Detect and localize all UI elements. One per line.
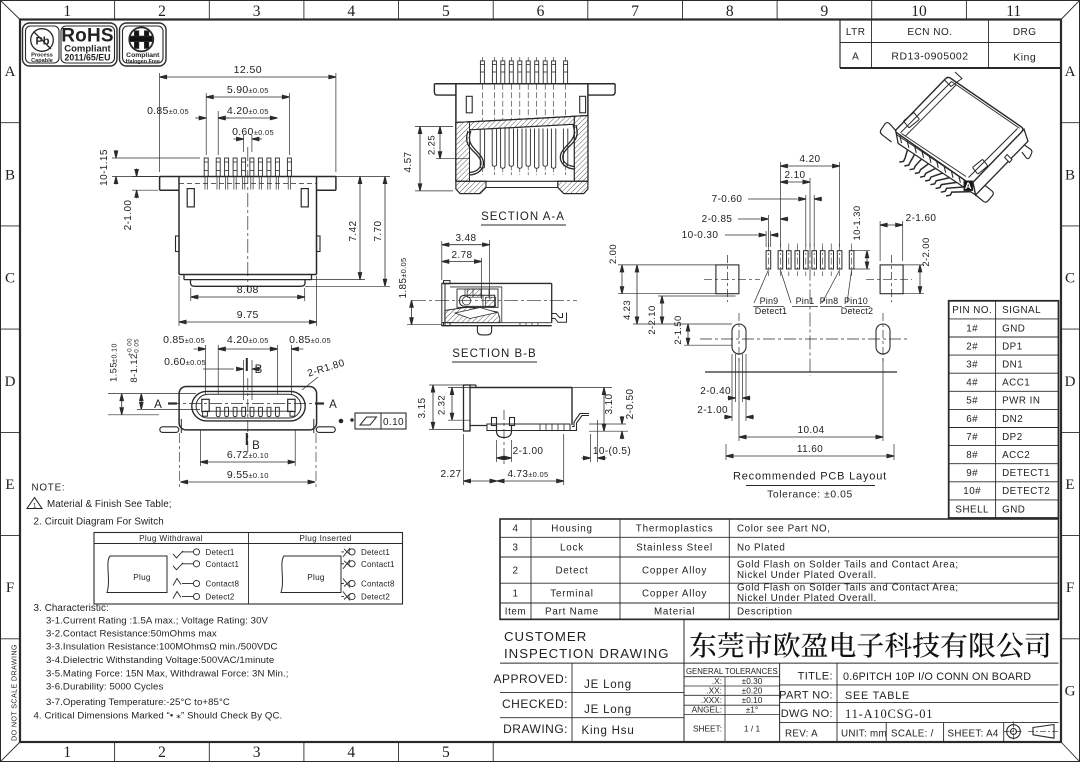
- svg-text:0.10: 0.10: [383, 417, 404, 428]
- svg-text:9#: 9#: [966, 468, 978, 479]
- svg-text:2-2.10: 2-2.10: [647, 305, 658, 334]
- svg-text:Pin10: Pin10: [844, 296, 868, 306]
- svg-text:Detect2: Detect2: [841, 306, 873, 316]
- svg-text:Contact1: Contact1: [361, 560, 395, 569]
- svg-text:Stainless Steel: Stainless Steel: [636, 543, 713, 554]
- svg-text:Gold Flash on Solder Tails and: Gold Flash on Solder Tails and Contact A…: [737, 583, 959, 594]
- svg-text:1.55: 1.55: [109, 362, 120, 382]
- svg-text:Lock: Lock: [560, 543, 584, 554]
- svg-text:±0.10: ±0.10: [112, 343, 119, 362]
- svg-text:A: A: [329, 399, 337, 411]
- svg-text:DN2: DN2: [1002, 414, 1023, 425]
- svg-text:LTR: LTR: [846, 27, 866, 38]
- svg-text:4.73±0.05: 4.73±0.05: [508, 469, 549, 480]
- svg-text:4. Critical Dimensions Marked: 4. Critical Dimensions Marked “• ⁎” Shou…: [34, 711, 283, 722]
- svg-text:0.85±0.05: 0.85±0.05: [289, 334, 331, 346]
- svg-text:9: 9: [821, 3, 829, 20]
- svg-text:Item: Item: [505, 607, 526, 618]
- svg-text:10: 10: [911, 3, 927, 20]
- svg-text:10#: 10#: [963, 486, 981, 497]
- svg-text:-0.05: -0.05: [134, 339, 141, 355]
- svg-text:Copper Alloy: Copper Alloy: [642, 589, 707, 600]
- svg-text:9.75: 9.75: [237, 309, 259, 321]
- svg-text:3-7.Operating Temperature:-25°: 3-7.Operating Temperature:-25°C to+85°C: [46, 697, 230, 708]
- svg-text:10.04: 10.04: [797, 425, 824, 436]
- svg-text:1 / 1: 1 / 1: [744, 724, 761, 734]
- svg-text:Copper Alloy: Copper Alloy: [642, 566, 707, 577]
- svg-text:ECN NO.: ECN NO.: [907, 27, 952, 38]
- svg-text:DETECT1: DETECT1: [1002, 468, 1050, 479]
- svg-text:3. Characteristic:: 3. Characteristic:: [34, 603, 109, 614]
- svg-text:1.85±0.05: 1.85±0.05: [398, 258, 409, 299]
- svg-text:ACC2: ACC2: [1002, 450, 1030, 461]
- svg-text:GENERAL TOLERANCES: GENERAL TOLERANCES: [686, 667, 778, 676]
- svg-text:A: A: [852, 52, 859, 63]
- svg-text:Plug: Plug: [133, 573, 151, 582]
- svg-text:A: A: [1065, 64, 1076, 80]
- svg-text:SHELL: SHELL: [955, 504, 989, 515]
- svg-text:1: 1: [63, 3, 71, 20]
- svg-text:DRG: DRG: [1013, 27, 1037, 38]
- svg-text:11: 11: [1006, 3, 1021, 20]
- svg-text:Plug: Plug: [307, 573, 325, 582]
- svg-text:2.32: 2.32: [437, 395, 448, 415]
- svg-text:8: 8: [726, 3, 734, 20]
- svg-text:3-6.Durability: 5000 Cycles: 3-6.Durability: 5000 Cycles: [46, 682, 163, 693]
- svg-text:CUSTOMER: CUSTOMER: [504, 629, 587, 644]
- svg-text:10-0.30: 10-0.30: [682, 230, 719, 241]
- svg-text:2-0.50: 2-0.50: [625, 389, 636, 420]
- svg-text:1#: 1#: [966, 323, 978, 334]
- svg-text:Contact1: Contact1: [206, 560, 240, 569]
- svg-text:Pin1: Pin1: [796, 296, 815, 306]
- svg-text:SEE TABLE: SEE TABLE: [845, 690, 910, 702]
- svg-text:B: B: [5, 167, 15, 183]
- svg-text:4.57: 4.57: [403, 151, 414, 172]
- svg-text:DO NOT SCALE DRAWING: DO NOT SCALE DRAWING: [10, 644, 19, 741]
- svg-text:3-4.Dielectric Withstanding Vo: 3-4.Dielectric Withstanding Voltage:500V…: [46, 655, 274, 666]
- svg-text:3-3.Insulation Resistance:100M: 3-3.Insulation Resistance:100MOhmsΩ min.…: [46, 642, 278, 653]
- svg-text:2: 2: [158, 744, 166, 761]
- svg-text:Nickel Under Plated Overall.: Nickel Under Plated Overall.: [737, 570, 877, 581]
- svg-text:ANGEL:: ANGEL:: [692, 705, 722, 715]
- svg-text:12.50: 12.50: [234, 64, 262, 76]
- svg-text:GND: GND: [1002, 504, 1025, 515]
- svg-text:2011/65/EU: 2011/65/EU: [65, 53, 111, 63]
- svg-text:C: C: [5, 271, 15, 287]
- svg-text:ACC1: ACC1: [1002, 378, 1030, 389]
- svg-text:INSPECTION DRAWING: INSPECTION DRAWING: [504, 646, 670, 661]
- svg-text:C: C: [1065, 271, 1075, 287]
- svg-text:4.23: 4.23: [622, 300, 633, 320]
- svg-text:SIGNAL: SIGNAL: [1002, 305, 1041, 316]
- svg-text:F: F: [6, 580, 14, 596]
- svg-text:3: 3: [512, 543, 518, 554]
- svg-text:Housing: Housing: [551, 524, 593, 535]
- svg-text:Material: Material: [654, 607, 695, 618]
- svg-text:CHECKED:: CHECKED:: [502, 697, 568, 711]
- svg-text:+0.00: +0.00: [127, 338, 134, 356]
- svg-text:2-1.00: 2-1.00: [513, 446, 544, 457]
- svg-text:2-1.60: 2-1.60: [906, 213, 937, 224]
- svg-text:Compliant: Compliant: [126, 52, 160, 59]
- svg-text:±1°: ±1°: [746, 705, 759, 715]
- svg-text:JE Long: JE Long: [584, 679, 632, 691]
- svg-text:Plug Inserted: Plug Inserted: [299, 534, 351, 543]
- svg-text:F: F: [1066, 580, 1074, 596]
- svg-text:.XXX:: .XXX:: [701, 695, 722, 705]
- svg-text:PIN NO.: PIN NO.: [952, 305, 992, 316]
- svg-text:DN1: DN1: [1002, 360, 1023, 371]
- svg-text:Terminal: Terminal: [550, 589, 593, 600]
- svg-text:Halogen Free: Halogen Free: [126, 59, 160, 65]
- svg-text:Thermoplastics: Thermoplastics: [636, 524, 714, 535]
- svg-text:3: 3: [253, 3, 261, 20]
- svg-text:0.6PITCH 10P I/O CONN ON BOARD: 0.6PITCH 10P I/O CONN ON BOARD: [843, 671, 1031, 683]
- svg-text:11-A10CSG-01: 11-A10CSG-01: [845, 707, 933, 721]
- svg-text:2-1.00: 2-1.00: [697, 405, 728, 416]
- svg-text:11.60: 11.60: [797, 444, 823, 455]
- svg-text:E: E: [1065, 477, 1074, 493]
- svg-text:10-1.30: 10-1.30: [852, 205, 863, 240]
- svg-text:B: B: [1065, 167, 1075, 183]
- svg-text:G: G: [1065, 683, 1076, 699]
- svg-text:A: A: [5, 64, 16, 80]
- svg-text:3: 3: [253, 744, 261, 761]
- svg-text:NOTE:: NOTE:: [32, 483, 66, 494]
- svg-text:3#: 3#: [966, 360, 978, 371]
- svg-text:GND: GND: [1002, 323, 1025, 334]
- svg-text:Detect1: Detect1: [206, 548, 235, 557]
- svg-text:E: E: [5, 477, 14, 493]
- svg-text:A: A: [965, 181, 972, 192]
- svg-text:Material & Finish See Table;: Material & Finish See Table;: [47, 499, 172, 510]
- svg-text:5.90±0.05: 5.90±0.05: [227, 84, 269, 96]
- svg-text:RD13-0905002: RD13-0905002: [891, 51, 968, 63]
- svg-text:3.15: 3.15: [417, 397, 428, 418]
- svg-text:Pin9: Pin9: [760, 296, 779, 306]
- svg-text:D: D: [5, 374, 16, 390]
- svg-text:4: 4: [347, 744, 355, 761]
- svg-text:5: 5: [442, 744, 450, 761]
- svg-text:Detect1: Detect1: [361, 548, 390, 557]
- svg-text:2#: 2#: [966, 341, 978, 352]
- svg-text:Recommended PCB Layout: Recommended PCB Layout: [733, 471, 887, 483]
- svg-text:7#: 7#: [966, 432, 978, 443]
- svg-text:2.00: 2.00: [608, 244, 619, 264]
- svg-text:SCALE: /: SCALE: /: [891, 729, 934, 740]
- svg-text:Contact8: Contact8: [206, 580, 240, 589]
- svg-text:King: King: [1013, 52, 1036, 64]
- svg-text:JE Long: JE Long: [584, 704, 632, 716]
- svg-text:3.10: 3.10: [604, 393, 615, 414]
- svg-text:Contact8: Contact8: [361, 580, 395, 589]
- svg-text:8#: 8#: [966, 450, 978, 461]
- svg-text:7.70: 7.70: [373, 220, 384, 241]
- svg-text:2-1.50: 2-1.50: [673, 315, 684, 344]
- svg-text:2.78: 2.78: [451, 250, 472, 261]
- svg-text:Detect1: Detect1: [755, 306, 787, 316]
- svg-text:DP2: DP2: [1002, 432, 1023, 443]
- svg-text:4.20±0.05: 4.20±0.05: [227, 334, 269, 346]
- svg-text:6: 6: [537, 3, 545, 20]
- svg-text:SHEET:: SHEET:: [693, 724, 722, 734]
- svg-text:No Plated: No Plated: [737, 543, 785, 554]
- svg-text:SHEET: A4: SHEET: A4: [948, 729, 999, 740]
- svg-text:3-1.Current Rating :1.5A max.;: 3-1.Current Rating :1.5A max.; Voltage R…: [46, 616, 269, 627]
- svg-text:±0.10: ±0.10: [742, 695, 763, 705]
- svg-text:7-0.60: 7-0.60: [712, 194, 743, 205]
- svg-text:3-5.Mating Force: 15N Max, Wit: 3-5.Mating Force: 15N Max, Withdrawal Fo…: [46, 669, 289, 680]
- svg-text:UNIT: mm: UNIT: mm: [841, 729, 887, 740]
- svg-text:2.25: 2.25: [427, 135, 438, 155]
- svg-text:3-2.Contact Resistance:50mOhms: 3-2.Contact Resistance:50mOhms max: [46, 629, 217, 640]
- svg-text:4.20±0.05: 4.20±0.05: [227, 105, 269, 117]
- svg-text:D: D: [1065, 374, 1076, 390]
- svg-text:4#: 4#: [966, 378, 978, 389]
- svg-text:9.55±0.10: 9.55±0.10: [227, 469, 269, 481]
- svg-text:6#: 6#: [966, 414, 978, 425]
- svg-text:8-1.12: 8-1.12: [129, 353, 140, 382]
- svg-text:DETECT2: DETECT2: [1002, 486, 1050, 497]
- svg-text:1: 1: [512, 589, 518, 600]
- svg-text:8.08: 8.08: [237, 284, 259, 296]
- svg-text:Part Name: Part Name: [545, 607, 599, 618]
- svg-text:2-2.00: 2-2.00: [921, 237, 932, 266]
- svg-text:APPROVED:: APPROVED:: [493, 672, 568, 686]
- svg-text:PWR IN: PWR IN: [1002, 396, 1040, 407]
- svg-text:SECTION B-B: SECTION B-B: [452, 348, 536, 360]
- svg-text:PART NO:: PART NO:: [779, 690, 833, 702]
- svg-text:5#: 5#: [966, 396, 978, 407]
- svg-text:4: 4: [347, 3, 355, 20]
- svg-text:Detect2: Detect2: [361, 593, 390, 602]
- svg-text:2-0.40: 2-0.40: [700, 386, 731, 397]
- svg-text:2.27: 2.27: [440, 469, 461, 480]
- svg-text:1: 1: [63, 744, 71, 761]
- svg-text:4: 4: [512, 524, 518, 535]
- svg-text:10-(0.5): 10-(0.5): [593, 446, 631, 457]
- svg-text:Detect: Detect: [555, 566, 588, 577]
- svg-text:2.10: 2.10: [784, 170, 805, 181]
- svg-text:Nickel Under Plated Overall.: Nickel Under Plated Overall.: [737, 593, 877, 604]
- svg-text:0.85±0.05: 0.85±0.05: [163, 334, 205, 346]
- svg-text:Detect2: Detect2: [206, 593, 235, 602]
- svg-text:REV: A: REV: A: [785, 729, 818, 740]
- svg-text:6.72±0.10: 6.72±0.10: [227, 449, 269, 461]
- svg-text:2: 2: [512, 566, 518, 577]
- svg-text:2: 2: [158, 3, 166, 20]
- svg-text:TITLE:: TITLE:: [798, 671, 833, 683]
- svg-text:7.42: 7.42: [348, 220, 359, 241]
- svg-text:Description: Description: [737, 607, 793, 618]
- svg-text:10-1.15: 10-1.15: [99, 149, 110, 186]
- svg-text:Tolerance: ±0.05: Tolerance: ±0.05: [767, 490, 853, 501]
- svg-text:Plug Withdrawal: Plug Withdrawal: [139, 534, 203, 543]
- svg-text:2-1.00: 2-1.00: [123, 200, 134, 231]
- svg-text:1: 1: [33, 503, 37, 510]
- svg-text:DRAWING:: DRAWING:: [503, 722, 568, 736]
- svg-text:0.60±0.05: 0.60±0.05: [164, 356, 206, 368]
- svg-text:Pin8: Pin8: [820, 296, 839, 306]
- svg-text:DP1: DP1: [1002, 341, 1023, 352]
- svg-text:4.20: 4.20: [799, 154, 820, 165]
- svg-text:King Hsu: King Hsu: [581, 725, 634, 737]
- svg-text:5: 5: [442, 3, 450, 20]
- svg-text:Capable: Capable: [31, 58, 53, 64]
- svg-text:SECTION A-A: SECTION A-A: [481, 211, 565, 223]
- svg-text:DWG NO:: DWG NO:: [781, 708, 833, 720]
- svg-text:Gold Flash on Solder Tails and: Gold Flash on Solder Tails and Contact A…: [737, 560, 959, 571]
- svg-text:Color see Part NO,: Color see Part NO,: [737, 524, 831, 535]
- svg-text:0.60±0.05: 0.60±0.05: [232, 126, 274, 138]
- svg-text:0.85±0.05: 0.85±0.05: [147, 105, 189, 117]
- svg-text:2. Circuit Diagram For Switch: 2. Circuit Diagram For Switch: [34, 517, 164, 528]
- svg-text:7: 7: [631, 3, 639, 20]
- svg-text:3.48: 3.48: [455, 233, 476, 244]
- svg-text:2-0.85: 2-0.85: [702, 214, 733, 225]
